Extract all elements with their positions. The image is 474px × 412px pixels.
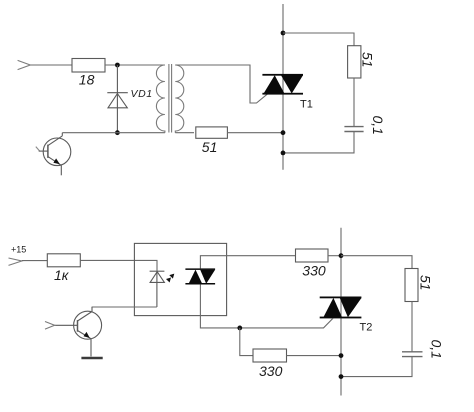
ground bbox=[81, 357, 102, 360]
wire: C2 bottom to T2 line bbox=[341, 357, 412, 377]
resistor R2 51 bbox=[196, 127, 228, 138]
resistor R4 1к bbox=[47, 254, 80, 267]
wire: gate node down to R6 bbox=[240, 328, 253, 356]
triac T2 bbox=[320, 297, 362, 319]
node: T1 top junction bbox=[281, 31, 286, 36]
transistor Q2 bbox=[55, 307, 102, 357]
wire: opto-triac bottom lead to T2 gate bbox=[200, 284, 333, 328]
svg-text:330: 330 bbox=[302, 262, 326, 278]
resistor R6 330 bbox=[253, 349, 287, 362]
wire: R3 to C1 bbox=[353, 78, 355, 126]
svg-text:T2: T2 bbox=[360, 322, 373, 334]
wire: R1 to transformer top bbox=[105, 64, 165, 66]
wire: R7 to C2 bbox=[411, 302, 413, 352]
node: T2 top junction bbox=[339, 253, 344, 258]
diode VD1 bbox=[107, 65, 128, 133]
light arrows bbox=[169, 274, 174, 279]
wire: Q1 collector / VD1 bottom to transformer bbox=[62, 132, 165, 134]
wire: R6 to T2 cathode node bbox=[287, 355, 342, 357]
node: junction VD1 bottom bbox=[115, 130, 120, 135]
svg-text:0,1: 0,1 bbox=[429, 340, 445, 359]
wire: input to R4 bbox=[22, 260, 48, 262]
resistor R5 330 bbox=[296, 249, 329, 262]
transformer TR1 secondary winding bbox=[175, 65, 184, 133]
optocoupler LED bbox=[150, 271, 165, 307]
svg-text:+15: +15 bbox=[11, 245, 26, 255]
input terminal chevron (+15 input) bbox=[9, 258, 22, 265]
svg-text:1к: 1к bbox=[54, 267, 70, 283]
wire: R2 to T1 cathode node bbox=[227, 132, 283, 134]
svg-text:18: 18 bbox=[79, 72, 95, 88]
svg-text:VD1: VD1 bbox=[131, 88, 153, 100]
node: C1 return junction bbox=[281, 151, 286, 156]
input terminal chevron (top circuit) bbox=[18, 60, 31, 69]
node: C2 return junction bbox=[339, 374, 344, 379]
node: junction R1/VD1 top bbox=[115, 63, 120, 68]
capacitor C1 0,1 bbox=[344, 127, 363, 132]
transistor Q1 bbox=[36, 133, 71, 176]
resistor R3 51 bbox=[348, 46, 361, 78]
resistor R7 51 bbox=[405, 269, 418, 302]
wire: T1 main vertical bbox=[282, 4, 284, 170]
wire: R5 to T2 anode node bbox=[328, 255, 341, 257]
capacitor C2 0,1 bbox=[402, 352, 423, 357]
wire: T2 top node to R7 bbox=[341, 256, 412, 269]
wire: secondary top to T1 gate bbox=[175, 65, 267, 103]
opto-triac U1b bbox=[185, 268, 215, 284]
transformer TR1 primary winding bbox=[156, 65, 165, 133]
node: R2/T1 junction bbox=[281, 130, 286, 135]
svg-text:51: 51 bbox=[360, 52, 376, 68]
svg-text:T1: T1 bbox=[300, 98, 313, 110]
transformer TR1 core bbox=[168, 64, 170, 133]
wire: opto-triac top lead to R5 bbox=[200, 256, 295, 269]
resistor R1 18 bbox=[72, 59, 105, 73]
wire: R4 to optocoupler LED bbox=[80, 260, 157, 271]
svg-text:330: 330 bbox=[259, 363, 283, 379]
input terminal chevron (Q2 base) bbox=[45, 322, 55, 330]
wire: C1 bottom to T1 line bbox=[283, 132, 354, 153]
wire: T2 main vertical bbox=[340, 228, 342, 396]
wire: LED cathode to Q2 collector bbox=[92, 306, 157, 308]
svg-text:51: 51 bbox=[202, 139, 218, 155]
node: R6/T2 junction bbox=[339, 353, 344, 358]
optocoupler U1 box bbox=[134, 243, 226, 315]
wire: secondary bottom to R2 bbox=[175, 132, 194, 134]
svg-text:0,1: 0,1 bbox=[370, 116, 386, 135]
wire: input to R1 bbox=[30, 64, 72, 66]
svg-text:51: 51 bbox=[418, 275, 434, 291]
node: gate branch junction bbox=[237, 326, 242, 331]
triac T1 bbox=[262, 74, 303, 95]
wire: top node to R3 bbox=[283, 33, 354, 46]
